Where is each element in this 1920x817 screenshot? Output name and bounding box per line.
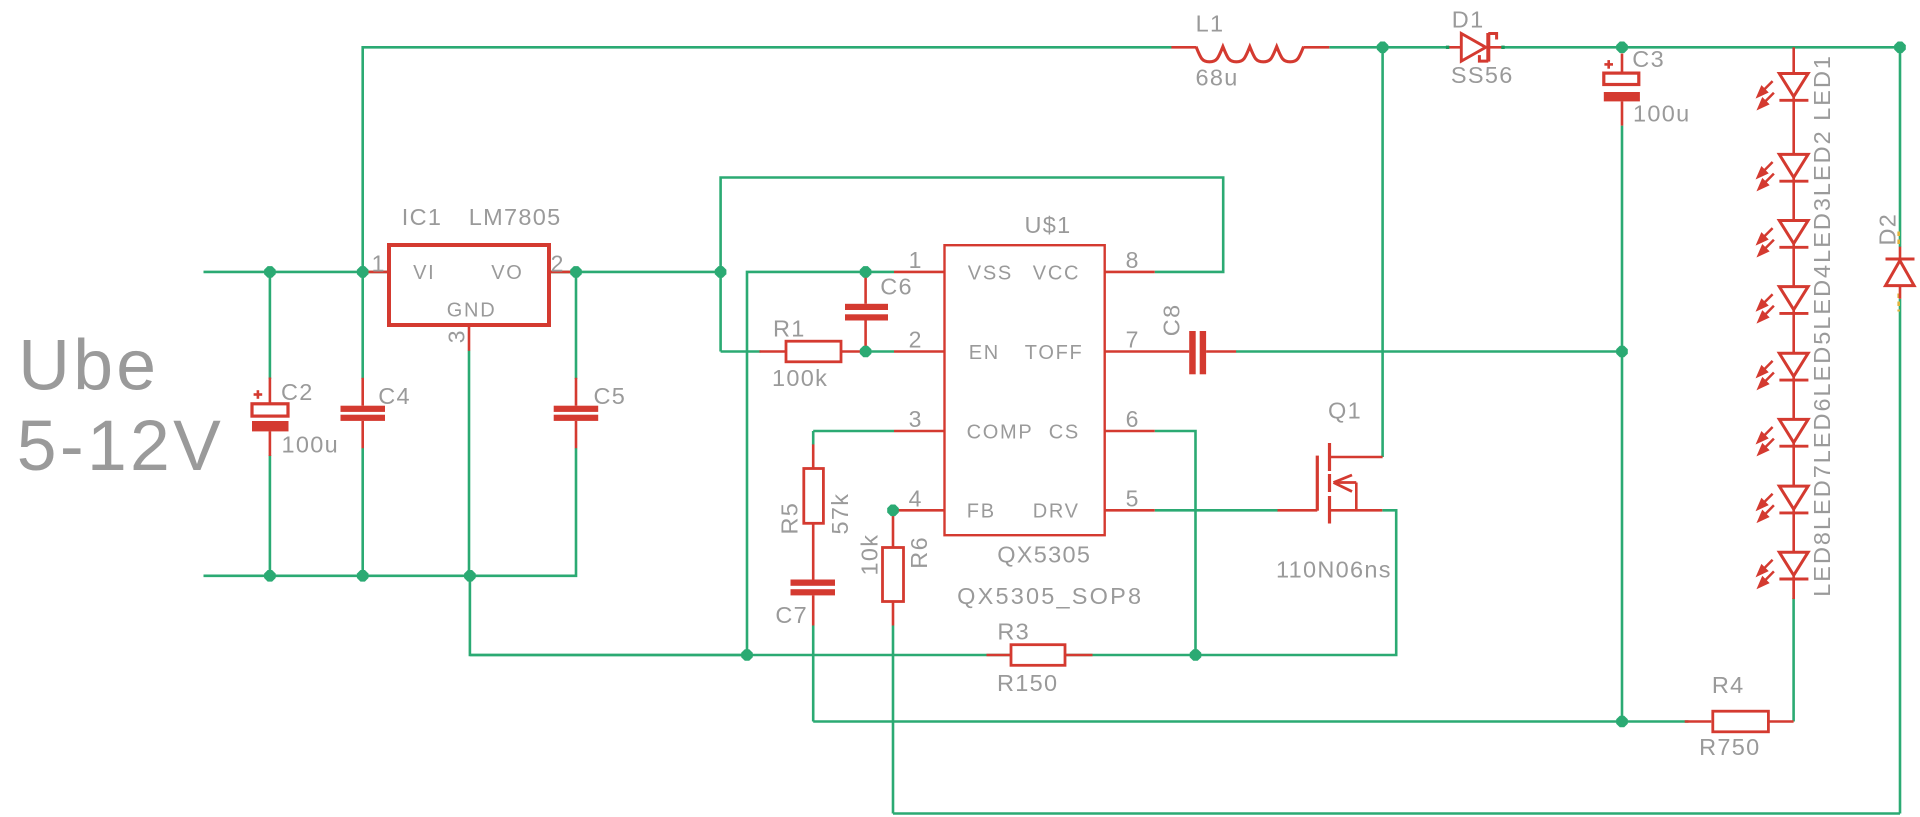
svg-text:68u: 68u [1196, 64, 1239, 90]
svg-text:R4: R4 [1712, 672, 1745, 698]
svg-text:110N06ns: 110N06ns [1276, 556, 1392, 582]
svg-text:5: 5 [1126, 485, 1139, 511]
svg-text:2: 2 [551, 250, 564, 276]
svg-text:Q1: Q1 [1328, 398, 1362, 424]
svg-text:VO: VO [491, 262, 523, 284]
svg-text:D1: D1 [1452, 6, 1485, 32]
svg-text:5-12V: 5-12V [17, 406, 224, 486]
svg-text:SS56: SS56 [1451, 62, 1514, 88]
svg-text:LM7805: LM7805 [469, 204, 562, 230]
svg-text:GND: GND [447, 299, 497, 321]
svg-text:FB: FB [967, 501, 996, 523]
svg-text:R6: R6 [906, 536, 932, 569]
svg-text:100u: 100u [1633, 101, 1690, 127]
svg-text:C5: C5 [594, 383, 627, 409]
svg-text:7: 7 [1126, 327, 1139, 353]
svg-text:COMP: COMP [967, 421, 1034, 443]
svg-text:EN: EN [969, 342, 1000, 364]
svg-text:C6: C6 [880, 274, 913, 300]
svg-text:IC1: IC1 [402, 204, 442, 230]
svg-text:C7: C7 [775, 602, 808, 628]
svg-text:VI: VI [413, 262, 435, 284]
svg-text:3: 3 [444, 330, 470, 343]
svg-text:R150: R150 [997, 670, 1058, 696]
svg-text:6: 6 [1126, 406, 1139, 432]
svg-text:L1: L1 [1196, 11, 1225, 37]
svg-text:D2: D2 [1874, 213, 1900, 246]
svg-text:TOFF: TOFF [1025, 342, 1084, 364]
svg-text:QX5305: QX5305 [997, 542, 1091, 568]
svg-text:1: 1 [372, 250, 385, 276]
svg-text:CS: CS [1049, 421, 1080, 443]
svg-text:DRV: DRV [1033, 501, 1080, 523]
svg-text:2: 2 [909, 327, 922, 353]
svg-text:10k: 10k [857, 534, 883, 576]
svg-text:100u: 100u [282, 432, 339, 458]
svg-text:1: 1 [909, 247, 922, 273]
svg-text:4: 4 [909, 485, 922, 511]
svg-text:C2: C2 [281, 379, 314, 405]
svg-text:57k: 57k [827, 493, 853, 535]
svg-text:VSS: VSS [968, 262, 1013, 284]
svg-text:3: 3 [909, 406, 922, 432]
svg-text:8: 8 [1126, 247, 1139, 273]
svg-text:Ube: Ube [18, 325, 159, 405]
svg-text:C8: C8 [1159, 304, 1185, 337]
svg-text:R3: R3 [997, 619, 1030, 645]
svg-text:U$1: U$1 [1025, 212, 1072, 238]
svg-text:R5: R5 [777, 502, 803, 535]
svg-text:100k: 100k [772, 365, 828, 391]
svg-text:LED8LED7LED6LED5LED4LED3LED2 L: LED8LED7LED6LED5LED4LED3LED2 LED1 [1809, 54, 1835, 597]
svg-text:QX5305_SOP8: QX5305_SOP8 [957, 583, 1143, 609]
svg-text:R750: R750 [1699, 734, 1760, 760]
svg-text:C4: C4 [378, 383, 411, 409]
svg-text:R1: R1 [773, 316, 806, 342]
svg-text:VCC: VCC [1033, 262, 1080, 284]
svg-text:C3: C3 [1632, 46, 1665, 72]
